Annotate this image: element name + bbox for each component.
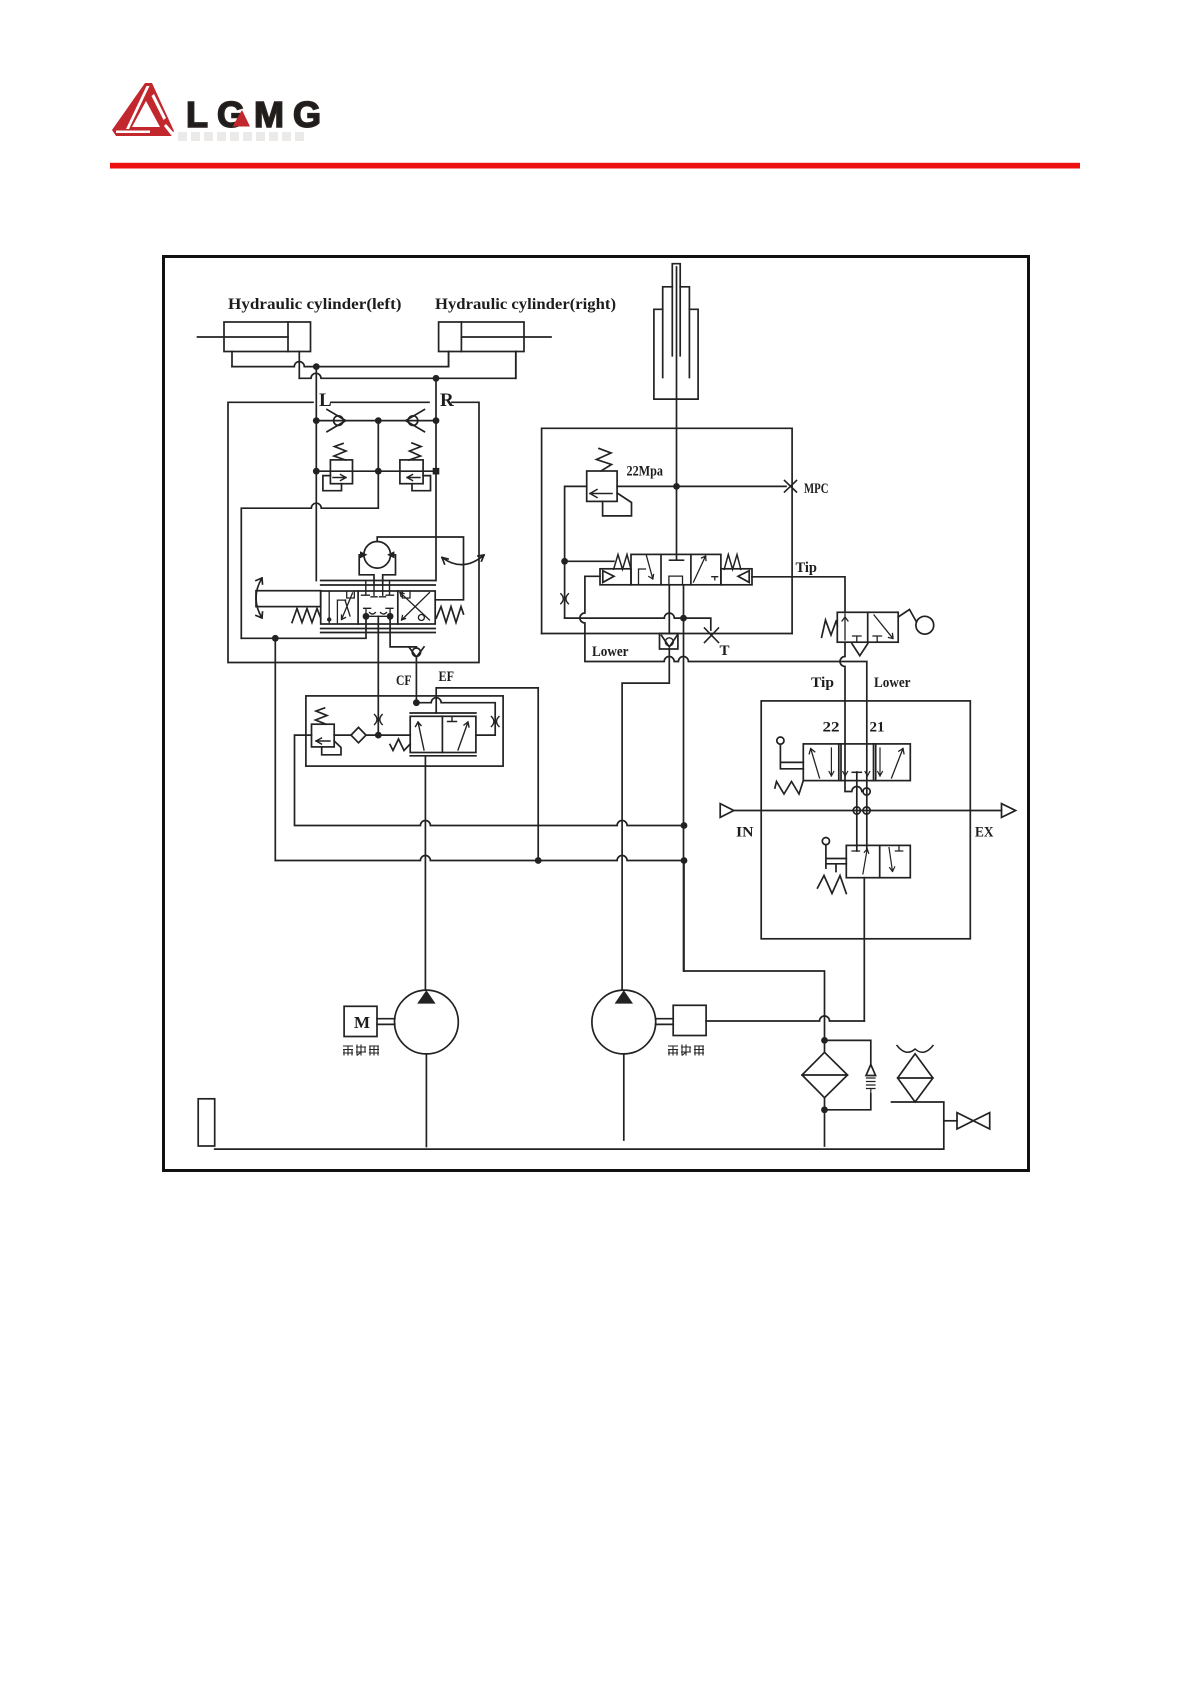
priority valve enclosure box [306,696,503,766]
priority spool divider [441,716,443,752]
middle block box [542,428,793,633]
hydraulic cylinder (right) rod [461,336,551,338]
svg-text:Hydraulic cylinder(right): Hydraulic cylinder(right) [435,296,616,313]
middle valve left cap pilot stub [585,575,600,577]
rotation arrow right [442,555,484,565]
wire: filter top stub [824,1040,826,1052]
manual tip valve lever knob [916,616,934,634]
node: junction dot R top [433,375,440,382]
middle valve right cap [721,569,752,585]
middle valve left spring [614,555,631,570]
middle valve right spring [724,555,741,570]
wire: left rod-end to right rod-end (y366.6) with hop over x299.3 [232,352,449,367]
priority relief valve spring [316,708,328,724]
svg-text:CF: CF [396,673,412,689]
hydraulic cylinder (right) port lines [449,352,516,379]
pump 1 circle [395,990,459,1054]
steering valve bottom rails [321,629,436,633]
relief valve RV2 pilot loop [412,476,431,491]
wire: tip valve outlet down to right block [840,642,863,791]
middle valve centre blocked ports [669,576,683,585]
air valve 1 body [803,744,910,781]
pump 2 outlet triangle [615,990,633,1003]
node: dot MPC line [673,483,680,490]
steering valve body [321,591,436,624]
motor shaft [377,1019,395,1025]
node: small circle tip-lower junction [863,788,870,795]
hydraulic cylinder (left) body [224,322,311,352]
air valve 1 right arrow [892,749,905,779]
telescopic cylinder stage 1 [654,309,698,399]
relief valve RV1 body [330,460,352,484]
node: dot relief row left [313,468,320,475]
outer diagram frame [164,257,1029,1171]
svg-text:Lower: Lower [874,675,911,691]
manual tip valve lever [898,610,916,623]
steering valve right section circle [418,615,424,621]
wire: center line down, left jog, down to drain gallery [241,421,378,639]
priority relief valve pilot loop [322,741,341,755]
relief valve RV2 spring [409,443,421,460]
orifice mark on CF line [375,715,383,725]
wire: left cap pilot down / line C to right block [580,577,867,849]
priority spool body [410,716,476,752]
svg-text:Tip: Tip [811,675,834,691]
check valve CV2 [408,416,418,426]
manual tip valve left section passage [842,614,848,640]
steering motor top bypass loop [377,537,463,600]
wire: long left line down to lower gallery [274,638,276,860]
pump 2 circle [592,990,656,1054]
middle valve left cap [600,569,631,585]
node: dot check row left [313,417,320,424]
manual tip valve divider [867,612,869,642]
middle valve top port T [670,559,684,561]
wire: relief row y471.2 [316,470,436,472]
steering motor right arrow [387,551,394,558]
node: junction dot L top [313,363,320,370]
relief valve 22Mpa spring [597,449,612,472]
hydraulic cylinder (left) port lines [232,352,299,379]
tank strainer symbol [198,1099,215,1146]
node: filter top dot [821,1037,828,1044]
relief valve RV2 body [400,460,423,484]
svg-text:Lower: Lower [592,644,629,660]
air breather diamond [898,1054,933,1102]
air valve 1 lever [780,744,803,769]
svg-text:LGMG: LGMG [186,94,330,135]
steering valve centre section symbols [364,608,393,616]
steering metering motor circle [364,542,391,569]
node: dot gallery x684 y825.5 [681,822,688,829]
wire: pump2 suction [623,1054,625,1140]
wire: line B (tank gallery) [542,633,793,635]
rotation arrow left [256,578,263,618]
relief valve RV1 pilot loop [323,476,342,491]
steering right spring [436,607,463,623]
pump 1 outlet triangle [417,990,435,1003]
MPC cross mark [785,481,797,493]
wire: tank suction line [215,1102,944,1149]
steering valve left section symbols [329,591,354,623]
svg-text:IN: IN [736,825,754,841]
motor M box [344,1006,377,1036]
wire: L vertical line [315,367,317,581]
filter diamond [802,1052,848,1097]
middle valve dividers [661,554,691,584]
wire: relief to orifice diamond [334,734,351,736]
priority spool rails [410,713,476,756]
node: dot left pilot rail [561,558,568,565]
red header rule [110,163,1080,169]
air valve 1 centre arrows [829,748,882,776]
node: filter bottom dot [821,1106,828,1113]
priority spool arrows [416,722,470,750]
svg-text:Hydraulic cylinder(left): Hydraulic cylinder(left) [228,296,402,313]
hydraulic cylinder (right) body [439,322,524,352]
check valve on line B [660,634,678,650]
air valve 2 lever knob [822,838,829,845]
label starter motor (chinese) [343,1045,379,1056]
orifice mark on EF pilot [491,717,499,727]
telescopic cylinder stage 2 [663,287,690,378]
middle solenoid valve body [631,554,721,584]
node: small circle on IN line A [853,807,860,814]
hydraulic cylinder (left) piston [287,322,289,352]
air valve 1 dividers [839,744,876,781]
wire: cylinder to middle valve [676,399,678,560]
drain globe valve [944,1120,957,1122]
wire: middle valve port A down to pump2 line [622,585,669,990]
svg-text:22: 22 [823,720,840,736]
relief valve RV1 spring [334,444,346,461]
steering valve centre dots [363,613,370,620]
wire: left head-end to right head-end (y378.3) with hop over x316 [299,352,516,379]
priority relief valve body [312,724,335,747]
T cross mark [705,628,719,643]
wire: steering valve EF port to check valve [390,616,416,647]
node: dot gallery x684 y860.5 [681,857,688,864]
orifice diamond [351,727,366,742]
wire: lower gallery y860.5 [275,856,684,861]
manual tip valve vent [852,644,868,656]
middle valve right section arrow [694,556,718,582]
air valve 2 arrows [863,848,895,874]
label power takeoff (chinese) [668,1045,704,1056]
wire: pump1 suction [425,1054,427,1147]
manual tip valve right section arrow [874,615,893,639]
node: CF junction dot [375,732,382,739]
wire: line A to tank node [565,613,684,618]
check valve CV1 [334,416,344,426]
node: dot check row right [433,417,440,424]
wire: IN-EX line [734,810,1002,812]
wire: valve1 centre port to IN line [856,772,858,811]
steering valve right section symbols [400,591,430,620]
air valve 2 body [846,845,910,877]
wire: EF pilot to spool right end with hop [416,698,495,735]
filter bypass check valve [825,1040,871,1109]
middle valve left cap solenoid triangle [603,571,614,583]
wire: diamond to CF node to spool [366,734,410,736]
node: dot relief row mid [375,468,382,475]
air valve 2 divider [879,845,881,877]
wire: centre line into valve2 [856,811,858,852]
relief valve 22Mpa body [587,471,617,501]
wire: check-valve row y420.6 [316,420,436,422]
steering motor brackets [359,555,395,585]
svg-text:22Mpa: 22Mpa [627,464,664,480]
wire: spool top port up over and down to lower gallery [436,688,538,861]
right block box [761,701,970,939]
steering left spring [292,609,321,623]
wire: gearbox to drain vertical [706,1016,864,1021]
air breather cap [897,1046,933,1053]
priority relief valve arrow [316,738,330,744]
middle valve right cap solenoid triangle [738,571,749,583]
priority spool top T ports [448,716,457,721]
manual tip valve blocked ports [853,636,882,642]
air valve 2 T ports [852,845,903,851]
steering valve section dividers [358,591,398,624]
steering handle rectangle [256,591,321,607]
svg-text:EF: EF [439,669,455,685]
svg-text:MPC: MPC [804,481,829,497]
air valve 1 spring [775,781,803,794]
wire: middle valve port B (tank return) down [684,585,825,1041]
hydraulic cylinder (left) rod [198,336,289,338]
wire: 22Mpa to MPC cross [617,485,786,487]
steering valve top rails [321,581,436,586]
node: EF junction dot [413,699,420,706]
wire: rail to middle valve spring [565,560,614,562]
air valve 2 spring [818,876,847,894]
wire: R vertical line [435,378,437,580]
orifice mark on left pilot rail [561,594,569,604]
check valve EF [409,647,424,657]
relief valve 22Mpa pilot loop [603,493,632,516]
node: dot line A x683.5 [680,615,687,622]
wire: Tip line from middle valve [752,577,845,613]
wire: filter bottom stub [824,1098,826,1146]
wire: valve2 drain down to gearbox line [863,878,865,1021]
svg-text:EX: EX [975,825,994,841]
IN arrow [720,804,734,818]
LGMG logo emblem [112,83,330,141]
node: square dot relief row right [433,468,440,475]
node: dot check row mid [375,417,382,424]
manual tip valve spring [822,620,838,637]
svg-text:L: L [319,390,332,411]
air valve 2 lever [826,845,846,872]
relief valve 22Mpa arrow [590,490,612,498]
wire: spool bottom port down to pump1 [424,756,426,989]
air valve 1 left arrow [809,749,819,779]
wire: relief drain out left and down to gallery y825.5 [295,735,685,825]
wire: line A branch to T orifice [684,618,711,630]
wire: steering drain gallery y638.3 to valve port [241,616,366,638]
EX arrow [1002,804,1016,818]
wire: tank return lower leg [683,861,685,972]
hydraulic cylinder (right) piston [460,322,462,352]
svg-text:M: M [354,1013,370,1032]
middle valve left section arrow [639,556,654,584]
svg-text:R: R [440,390,454,411]
gearbox box [673,1005,706,1035]
telescopic cylinder rod line [676,267,678,399]
wire: EF line down to priority valve [415,656,417,702]
svg-text:21: 21 [870,720,885,736]
node: dot gallery x540.3 [535,857,542,864]
telescopic cylinder stage 3 [672,264,680,356]
manual tip valve body [837,612,898,642]
node: dot steering drain [272,635,279,642]
air valve 1 lever knob [777,737,784,744]
node: small circle on IN line B [863,807,870,814]
svg-text:T: T [720,643,730,659]
steering block box outline (gaps at L and R labels) [228,402,479,662]
wire: 22Mpa left to pilot rail [565,486,587,618]
steering motor left arrow [360,551,368,558]
gearbox shaft [656,1019,674,1025]
wire: CF line down to priority valve [377,616,379,735]
air valve 1 centre T [852,771,861,773]
relief valve RV1 arrow [333,475,346,481]
relief valve RV2 arrow [407,475,420,481]
steering valve port stubs [362,581,394,597]
svg-text:Tip: Tip [796,560,818,576]
priority spool spring [390,739,410,751]
